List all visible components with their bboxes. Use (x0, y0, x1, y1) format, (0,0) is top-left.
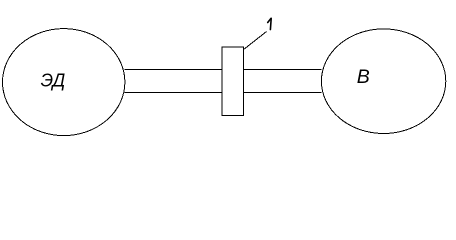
fan ellipse В (321, 29, 445, 134)
wire shaft left top (125, 69, 222, 71)
wire shaft right top (243, 69, 321, 71)
leader line to label 1 (244, 32, 267, 50)
svg-text:В: В (357, 66, 370, 88)
wire shaft right bottom (243, 92, 321, 94)
label 1 (268, 18, 272, 29)
motor ellipse ЭД (3, 29, 125, 136)
coupling rectangle 1 (222, 47, 243, 116)
svg-text:ЭД: ЭД (41, 70, 66, 90)
wire shaft left bottom (125, 92, 222, 94)
